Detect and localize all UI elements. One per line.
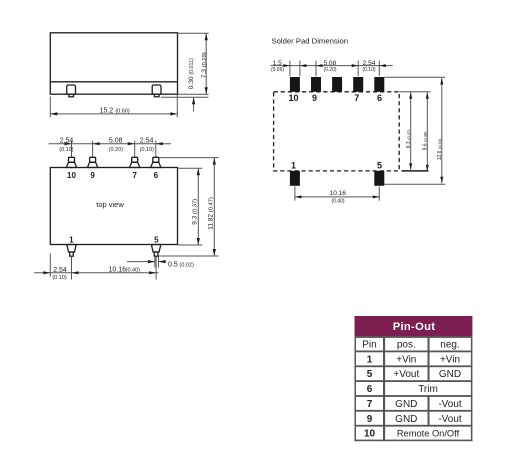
svg-text:GND: GND bbox=[439, 369, 461, 380]
svg-text:(0.10): (0.10) bbox=[59, 147, 74, 153]
svg-text:6: 6 bbox=[154, 171, 159, 180]
svg-text:7: 7 bbox=[354, 93, 359, 103]
svg-text:10: 10 bbox=[364, 429, 376, 440]
svg-text:(0.02): (0.02) bbox=[180, 262, 195, 268]
svg-text:neg.: neg. bbox=[440, 340, 459, 351]
svg-text:9.3 (0.37): 9.3 (0.37) bbox=[191, 199, 198, 225]
svg-text:7.3 (0.29): 7.3 (0.29) bbox=[201, 52, 208, 78]
svg-text:(0.10): (0.10) bbox=[362, 67, 375, 73]
svg-text:10: 10 bbox=[288, 93, 298, 103]
svg-text:1: 1 bbox=[367, 354, 373, 365]
svg-text:0.5: 0.5 bbox=[168, 262, 178, 269]
svg-text:5.08: 5.08 bbox=[109, 137, 123, 144]
svg-text:(0.10): (0.10) bbox=[140, 147, 155, 153]
svg-text:Remote On/Off: Remote On/Off bbox=[397, 429, 460, 439]
svg-text:10.16: 10.16 bbox=[330, 190, 347, 197]
svg-text:+Vout: +Vout bbox=[393, 369, 419, 380]
svg-text:(0.06): (0.06) bbox=[271, 67, 284, 73]
svg-text:5: 5 bbox=[154, 236, 159, 245]
svg-text:2.54: 2.54 bbox=[363, 60, 376, 67]
svg-text:9: 9 bbox=[367, 414, 373, 425]
svg-text:0.30 (0.011): 0.30 (0.011) bbox=[188, 58, 195, 89]
svg-text:10: 10 bbox=[67, 171, 76, 180]
svg-text:Pin-Out: Pin-Out bbox=[393, 321, 436, 333]
svg-text:+Vin: +Vin bbox=[440, 354, 460, 365]
svg-text:10.16: 10.16 bbox=[109, 267, 127, 274]
svg-text:top view: top view bbox=[96, 200, 124, 209]
svg-text:GND: GND bbox=[395, 399, 417, 410]
svg-text:(0.10): (0.10) bbox=[52, 275, 67, 281]
svg-text:7: 7 bbox=[367, 399, 373, 410]
svg-text:Trim: Trim bbox=[418, 384, 438, 395]
svg-text:6: 6 bbox=[367, 384, 373, 395]
svg-text:+Vin: +Vin bbox=[396, 354, 416, 365]
svg-text:2.54: 2.54 bbox=[140, 137, 154, 144]
svg-text:9: 9 bbox=[312, 93, 317, 103]
svg-text:5: 5 bbox=[367, 369, 373, 380]
svg-text:5.08: 5.08 bbox=[323, 60, 336, 67]
svg-text:(0.20): (0.20) bbox=[323, 67, 336, 73]
svg-text:6: 6 bbox=[377, 93, 382, 103]
svg-text:11.82 (0.47): 11.82 (0.47) bbox=[208, 197, 215, 230]
svg-text:(0.20): (0.20) bbox=[109, 147, 124, 153]
svg-text:(0.60): (0.60) bbox=[115, 108, 130, 114]
svg-text:pos.: pos. bbox=[397, 340, 416, 351]
svg-text:Solder Pad Dimension: Solder Pad Dimension bbox=[272, 37, 349, 46]
svg-text:15.2: 15.2 bbox=[100, 107, 114, 114]
svg-text:2.54: 2.54 bbox=[60, 137, 74, 144]
svg-text:(0.40): (0.40) bbox=[331, 199, 344, 205]
svg-text:1: 1 bbox=[69, 236, 74, 245]
svg-text:1.5: 1.5 bbox=[273, 60, 282, 67]
svg-text:Pin: Pin bbox=[362, 340, 376, 351]
svg-text:-Vout: -Vout bbox=[438, 414, 462, 425]
svg-text:GND: GND bbox=[395, 414, 417, 425]
svg-text:1: 1 bbox=[291, 161, 296, 171]
svg-text:9: 9 bbox=[90, 171, 95, 180]
svg-text:2.54: 2.54 bbox=[53, 267, 67, 274]
svg-text:(0.40): (0.40) bbox=[126, 268, 141, 274]
svg-text:7: 7 bbox=[132, 171, 137, 180]
svg-text:-Vout: -Vout bbox=[438, 399, 462, 410]
svg-text:5: 5 bbox=[377, 161, 382, 171]
